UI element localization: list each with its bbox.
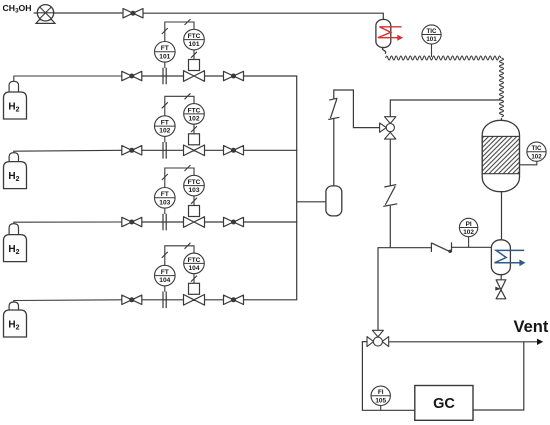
valve V3a inlet isolation (122, 217, 142, 226)
signal slash top 3 (185, 165, 191, 171)
svg-text:101: 101 (426, 36, 437, 43)
valve V4b outlet isolation (224, 295, 244, 304)
wire valve V0 to vaporizer E1 (143, 13, 383, 19)
wire PI102 stem (468, 237, 470, 248)
wire break B3 to corner (378, 248, 431, 331)
svg-text:105: 105 (375, 397, 386, 404)
wire control valve to valve V1b (205, 75, 224, 77)
svg-text:TIC: TIC (532, 145, 542, 152)
svg-text:FTC: FTC (188, 33, 201, 40)
svg-text:Vent: Vent (514, 318, 549, 336)
wire TIC101 to traced line (431, 44, 433, 57)
wire control valve to valve V3b (205, 221, 224, 223)
svg-text:104: 104 (188, 265, 199, 272)
wire mixer riser to valve V3 inlet (334, 90, 380, 128)
signal FT102 riser (165, 96, 194, 116)
pump P1 base (36, 20, 55, 24)
svg-text:102: 102 (188, 116, 199, 123)
wire FT102 stem (164, 136, 166, 142)
drain valve V5 (496, 280, 506, 299)
svg-text:103: 103 (159, 199, 170, 206)
wire valve V1b to header (244, 75, 298, 77)
instrument FTC102 (184, 104, 205, 125)
cooling coil in S1 (blue) (495, 250, 525, 262)
heated transfer line (vertical) (500, 58, 504, 117)
svg-text:FTC: FTC (188, 179, 201, 186)
control valve CV101 (184, 71, 205, 82)
wire V4 left to GC loop (362, 342, 371, 411)
cold stream arrow (blue) (519, 259, 525, 266)
svg-text:103: 103 (188, 187, 199, 194)
H2 header (296, 76, 298, 300)
control valve CV104 actuator (189, 283, 200, 294)
valve V3b outlet isolation (224, 217, 244, 226)
wire reactor R1 to separator S1 (501, 192, 503, 240)
vent arrow (537, 339, 543, 345)
3-way valve V3 (380, 117, 396, 139)
wire separator outlet header (452, 246, 492, 248)
heated transfer line (horizontal) (386, 56, 501, 60)
signal slash riser 3 (162, 174, 168, 180)
valve V0 methanol isolation (123, 9, 143, 18)
svg-text:FT: FT (161, 191, 169, 198)
H2 cylinder 4 (4, 302, 27, 337)
svg-text:FT: FT (161, 120, 169, 127)
svg-text:PI: PI (466, 221, 472, 228)
wire GC return to vent line (473, 342, 524, 410)
line break symbol B3 (431, 242, 451, 253)
svg-text:GC: GC (433, 396, 455, 412)
wire valve V4b to header (244, 299, 298, 301)
instrument FT103 (155, 188, 176, 209)
wire reactor R1 to TIC102 (520, 161, 537, 165)
wire mixer pot riser lower (333, 119, 335, 186)
hot stream arrow (red) (397, 35, 403, 41)
pump P1 (37, 5, 53, 21)
wire valve V4a to control valve (142, 299, 184, 301)
valve V4a inlet isolation (122, 295, 142, 304)
svg-text:102: 102 (531, 153, 542, 160)
vaporizer vessel E1 (376, 19, 391, 47)
reactor vessel R1 (482, 120, 519, 191)
svg-text:FTC: FTC (188, 107, 201, 114)
H2 cylinder 1 (4, 81, 27, 119)
signal slash stem 1 (191, 52, 197, 58)
signal FTC103 to valve stem (193, 196, 195, 206)
line break symbol B1 (328, 98, 339, 119)
svg-text:FTC: FTC (188, 257, 201, 264)
instrument PI102 (459, 218, 477, 236)
signal FTC101 to valve stem (193, 50, 195, 60)
signal slash riser 2 (162, 102, 168, 108)
wire control valve to valve V2b (205, 149, 224, 151)
svg-text:102: 102 (159, 128, 170, 135)
signal slash top 1 (185, 19, 191, 25)
wire FT104 stem (164, 286, 166, 292)
signal slash stem 2 (191, 126, 197, 132)
signal slash top 4 (185, 243, 191, 249)
control valve CV101 actuator (189, 60, 200, 71)
signal FT104 riser (165, 246, 194, 265)
valve V2a inlet isolation (122, 146, 142, 155)
separator vessel S1 (491, 240, 510, 275)
wire GC loop under FI105 (371, 409, 415, 411)
instrument FI105 (371, 386, 390, 405)
wire break B2 to 3-way valve V3 (389, 139, 391, 185)
instrument FT102 (155, 116, 176, 137)
wire E1 outlet curl (383, 47, 386, 54)
wire valve V2a to control valve (142, 149, 184, 151)
wire cylinder 1 to valve (14, 76, 122, 81)
line break symbol B2 (383, 185, 397, 207)
orifice plate FE101 (163, 68, 166, 85)
instrument FT104 (155, 265, 176, 286)
catalyst bed (hatched) (482, 136, 519, 173)
wire V3 top port to reactor feed (390, 100, 500, 117)
svg-text:FT: FT (161, 45, 169, 52)
wire FT103 stem (164, 208, 166, 214)
instrument FTC103 (184, 175, 205, 196)
instrument FTC101 (184, 29, 205, 50)
wire header to mixer pot (297, 201, 326, 203)
control valve CV104 (184, 295, 205, 306)
wire bypass tee down to break B2 (389, 206, 391, 248)
signal FTC104 to valve stem (193, 274, 195, 284)
wire V4 to vent (389, 341, 538, 343)
3-way valve V4 (367, 330, 389, 346)
signal FT103 riser (165, 168, 194, 188)
signal slash stem 3 (191, 198, 197, 204)
orifice plate FE102 (163, 142, 166, 159)
control valve CV102 actuator (189, 134, 200, 145)
instrument FT101 (155, 42, 176, 63)
analyzer GC box (415, 386, 473, 421)
wire valve V3b to header (244, 221, 298, 223)
svg-text:104: 104 (159, 277, 170, 284)
orifice plate FE103 (163, 214, 166, 231)
wire valve V1a to control valve (142, 75, 184, 77)
svg-text:TIC: TIC (427, 28, 437, 35)
heating coil in E1 (red) (378, 27, 402, 38)
valve V1a inlet isolation (122, 71, 142, 80)
signal slash riser 4 (162, 252, 168, 258)
control valve CV102 (184, 145, 205, 156)
valve V1b outlet isolation (224, 71, 244, 80)
mixer pot M1 (326, 186, 342, 216)
valve V2b outlet isolation (224, 146, 244, 155)
instrument FTC104 (184, 253, 205, 274)
svg-text:101: 101 (159, 53, 170, 60)
H2 cylinder 2 (4, 153, 27, 189)
wire FT101 stem (164, 62, 166, 68)
control valve CV103 actuator (189, 206, 200, 217)
svg-text:101: 101 (188, 41, 199, 48)
wire pump to valve V0 (54, 12, 123, 14)
orifice plate FE104 (163, 292, 166, 309)
drain valve V5 handle (495, 287, 501, 291)
instrument TIC101 (422, 25, 441, 44)
signal slash stem 4 (191, 276, 197, 282)
wire label to pump P1 (34, 12, 38, 14)
wire cylinder 4 to valve (14, 300, 122, 302)
svg-text:FT: FT (161, 269, 169, 276)
wire valve V2b to header (244, 149, 298, 151)
svg-text:FI: FI (378, 389, 384, 396)
signal slash riser 1 (162, 28, 168, 34)
wire cylinder 3 to valve (14, 222, 122, 224)
signal FT101 riser (165, 22, 194, 42)
wire S1 to drain valve V5 (500, 275, 502, 280)
wire valve V3a to control valve (142, 221, 184, 223)
wire traced line into reactor R1 (501, 118, 503, 121)
wire FI105 stem (380, 406, 382, 411)
wire control valve to valve V4b (205, 299, 224, 301)
wire cylinder 2 to valve (14, 150, 122, 152)
instrument TIC102 (527, 142, 546, 161)
control valve CV103 (184, 217, 205, 228)
signal slash top 2 (185, 93, 191, 99)
H2 cylinder 3 (4, 224, 27, 262)
svg-text:102: 102 (463, 229, 474, 236)
signal FTC102 to valve stem (193, 124, 195, 134)
